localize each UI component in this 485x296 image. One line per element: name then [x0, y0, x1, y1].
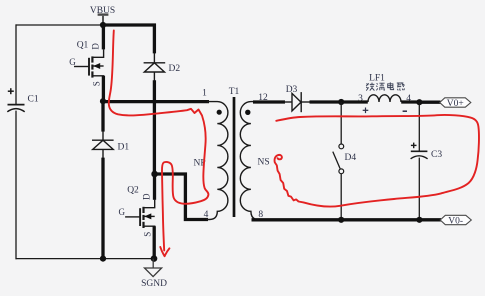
port V0+ — [440, 98, 471, 109]
wire thick node B down to Q2 drain — [153, 174, 156, 200]
label D1 — [118, 143, 130, 153]
label D3 — [286, 85, 298, 95]
pin label S of Q2 (rotated) — [142, 232, 152, 237]
svg-text:D4: D4 — [345, 153, 357, 163]
label NP — [194, 159, 206, 169]
svg-text:VBUS: VBUS — [90, 6, 115, 16]
svg-text:4: 4 — [204, 210, 209, 220]
pin label G of Q2 — [119, 207, 126, 217]
node polarity dot secondary — [245, 110, 250, 115]
wire thick node A down to D1 cathode — [101, 101, 104, 131]
svg-text:D1: D1 — [118, 143, 130, 153]
capacitor C3 — [411, 102, 428, 220]
node D junction LF1 / C3 / V0+ — [416, 99, 422, 105]
wire thick node D to V0+ port — [419, 101, 440, 104]
svg-text:S: S — [142, 232, 152, 237]
svg-text:Q1: Q1 — [77, 41, 89, 51]
value label 续流电感 (freewheeling inductor, drawn glyphs) — [366, 82, 404, 90]
node VBUS junction — [100, 22, 106, 28]
wire top rail thin from C1 top to VBUS node — [16, 24, 104, 26]
transformer T1 core — [233, 97, 236, 217]
label T1 — [229, 87, 240, 97]
pin label S of Q1 (rotated) — [91, 81, 101, 86]
node B junction D2 anode / Q2 drain / pin 4 — [151, 171, 158, 178]
svg-text:D: D — [142, 193, 152, 200]
ground SGND symbol — [145, 259, 162, 277]
wire thick node B to transformer pin 4 (L path) — [155, 174, 208, 220]
transformer T1 secondary winding NS — [240, 102, 262, 220]
label VBUS — [90, 6, 115, 16]
pin number 1 — [202, 89, 207, 99]
wire thick bottom output rail pin 8 to V0- — [252, 218, 442, 221]
transistor Q2 N-MOSFET — [125, 200, 155, 228]
svg-text:T1: T1 — [229, 87, 240, 97]
wire thick node A to transformer pin 1 — [103, 100, 209, 103]
node polarity dot primary — [217, 110, 222, 115]
wire bottom rail thin to SGND node — [16, 258, 155, 260]
label polarity minus under LF1 — [403, 110, 407, 112]
inductor LF1 — [368, 95, 401, 102]
pin number 8 — [258, 210, 263, 220]
wire thick Q2 source to SGND node — [153, 226, 156, 258]
wire thick D3 cathode to node C — [310, 100, 342, 103]
pin number 4 — [204, 210, 209, 220]
svg-text:LF1: LF1 — [369, 74, 385, 84]
red annotation primary current loop with arrow to SGND — [109, 31, 209, 257]
wire left rail C1 upper segment — [15, 24, 17, 104]
pin label D of Q1 (rotated) — [91, 43, 101, 50]
label LF1 — [369, 74, 385, 84]
pin number 3 — [358, 94, 363, 104]
pin number 12 — [258, 93, 268, 103]
svg-text:NS: NS — [258, 158, 270, 168]
svg-text:D3: D3 — [286, 85, 298, 95]
label NS — [258, 158, 270, 168]
node A junction Q1 source / pin1 net — [100, 98, 106, 104]
wire thick pin 12 to D3 anode — [253, 100, 285, 103]
wire thick node C to LF1 — [341, 100, 368, 103]
diode D2 — [144, 53, 166, 81]
svg-text:SGND: SGND — [141, 279, 167, 289]
node bottom rail at C3 — [416, 217, 422, 223]
label SGND — [141, 279, 167, 289]
node bottom rail at D1 — [100, 256, 106, 262]
transformer T1 primary winding NP — [206, 102, 228, 220]
switch-style diode D4 — [333, 102, 344, 220]
wire thick D1 anode to bottom rail — [101, 158, 104, 259]
diode D1 — [92, 131, 114, 158]
wire thick Q1 source to node A — [102, 76, 105, 102]
label Q2 — [127, 186, 139, 196]
red annotation secondary current loop with arrow near NS — [275, 115, 479, 207]
capacitor C1 — [7, 88, 24, 112]
wire thick LF1 to node D — [401, 100, 419, 103]
power port VBUS bar symbol — [98, 15, 109, 25]
svg-text:S: S — [91, 81, 101, 86]
svg-text:D: D — [91, 43, 101, 50]
svg-text:G: G — [69, 57, 76, 67]
node C junction D3 / D4 / LF1 — [338, 99, 344, 105]
svg-text:Q2: Q2 — [127, 186, 139, 196]
svg-text:V0+: V0+ — [447, 99, 464, 109]
label D2 — [169, 64, 181, 74]
svg-text:C3: C3 — [431, 150, 442, 160]
transistor Q1 N-MOSFET — [74, 49, 104, 77]
svg-text:D2: D2 — [169, 64, 181, 74]
port V0- — [440, 215, 471, 226]
pin number 4 of LF1 — [406, 94, 411, 104]
pin label D of Q2 (rotated) — [142, 193, 152, 200]
svg-text:C1: C1 — [28, 95, 39, 105]
svg-text:G: G — [119, 207, 126, 217]
svg-text:V0-: V0- — [448, 216, 463, 226]
label C1 — [28, 95, 39, 105]
wire thick VBUS rail to D2 — [103, 25, 154, 53]
wire thick D2 anode down to node B (crosses pin1 net) — [153, 80, 156, 174]
svg-text:1: 1 — [202, 89, 207, 99]
label D4 — [345, 153, 357, 163]
pin label G of Q1 — [69, 57, 76, 67]
label polarity plus under LF1 — [363, 108, 369, 114]
diode D3 — [284, 92, 310, 112]
node SGND junction — [151, 255, 158, 262]
label Q1 — [77, 41, 89, 51]
wire left rail C1 lower segment — [15, 111, 17, 260]
label C3 — [431, 150, 442, 160]
node bottom rail at D4 — [338, 217, 344, 223]
wire thick VBUS down to Q1 drain — [102, 25, 105, 49]
